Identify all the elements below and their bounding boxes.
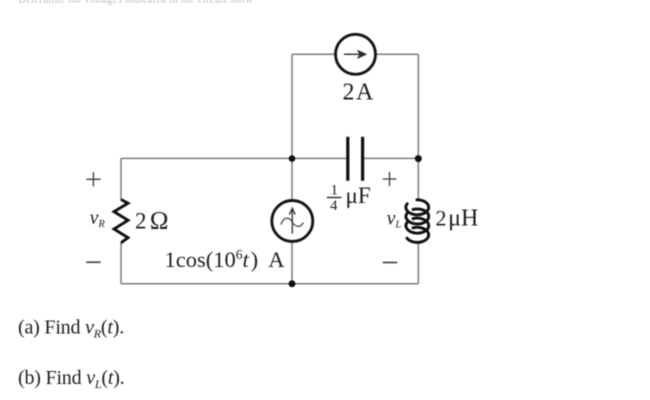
current source I2 sine tilde	[281, 218, 303, 226]
capacitor C1 left plate	[346, 137, 349, 181]
wire left branch vertical top	[120, 158, 122, 200]
current source I1 2A circle	[336, 34, 376, 74]
current source I2 circle	[272, 201, 313, 242]
svg-text:Determine the voltages indicat: Determine the voltages indicated in the …	[19, 0, 254, 6]
svg-text:μF: μF	[346, 183, 371, 208]
current source I1 arrow	[344, 53, 361, 55]
node C junction dot	[289, 280, 296, 287]
svg-text:2μH: 2μH	[436, 206, 479, 232]
wire left branch vertical bottom	[120, 243, 122, 284]
svg-text:1cos(106t ) A: 1cos(106t ) A	[165, 247, 286, 272]
inductor L1 coil	[406, 200, 429, 243]
resistor R1 zigzag	[114, 200, 128, 243]
svg-text:4: 4	[330, 198, 338, 214]
svg-text:1: 1	[331, 182, 339, 198]
minus sign vR	[86, 261, 100, 263]
svg-text:(a) Find vR(t).: (a) Find vR(t).	[18, 317, 124, 341]
wire bottom rail	[121, 283, 418, 285]
minus sign vL	[383, 262, 397, 264]
node A junction dot	[289, 155, 296, 162]
wire right vertical upper	[417, 54, 419, 158]
svg-text:(b) Find vL(t).: (b) Find vL(t).	[18, 367, 124, 391]
current source I2 arrow	[289, 208, 295, 234]
wire middle rail left segment	[121, 157, 347, 159]
wire right branch vertical bottom	[417, 243, 419, 284]
svg-text:2Ω: 2Ω	[135, 208, 168, 235]
plus sign vL	[383, 172, 397, 186]
wire middle rail right segment	[364, 157, 418, 159]
node B junction dot	[415, 155, 422, 162]
wire middle source vertical	[291, 158, 293, 283]
wire right branch vertical mid	[417, 158, 419, 199]
capacitor C1 right plate	[361, 137, 364, 181]
wire left upper vertical	[291, 54, 293, 158]
svg-text:2 A: 2 A	[343, 80, 374, 106]
wire top rail	[292, 53, 418, 55]
fraction bar	[327, 197, 342, 199]
plus sign vR	[86, 172, 100, 186]
